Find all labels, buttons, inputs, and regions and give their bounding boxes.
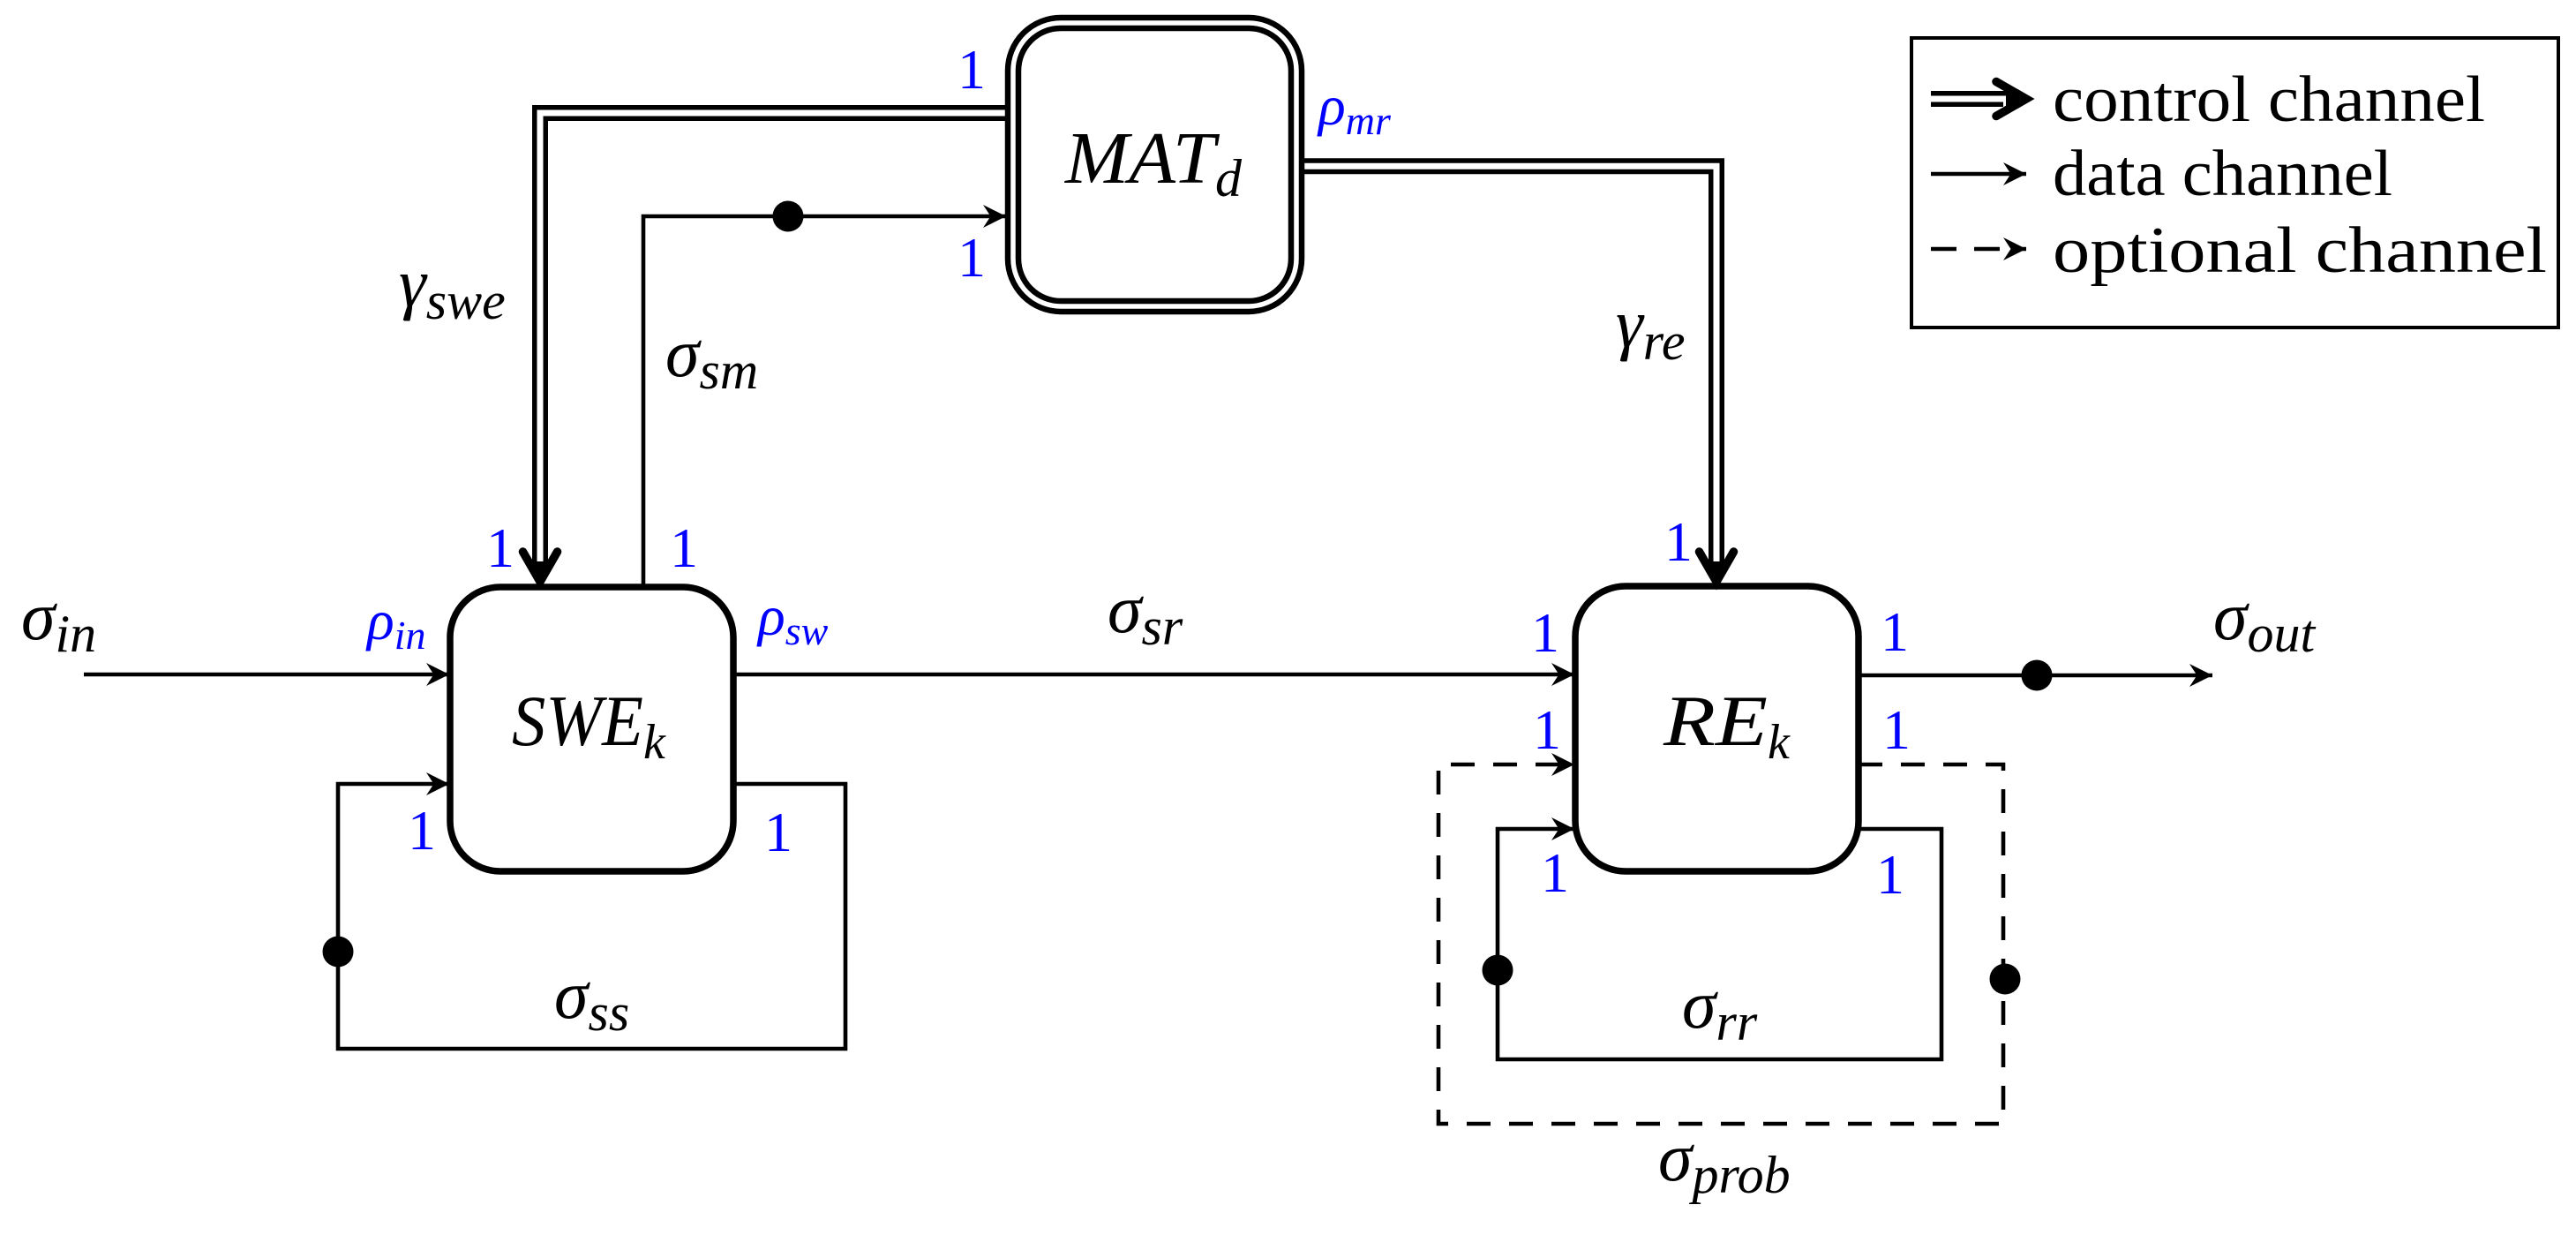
junction dot on sigma_prob: [1990, 964, 2021, 995]
label sigma_sm: [665, 314, 758, 400]
rate label 1 (SWE bottom-right): [764, 801, 792, 863]
wire sigma_rr (feedback loop of RE): [1498, 829, 1941, 1059]
svg-text:1: 1: [1876, 843, 1904, 906]
legend box: [1911, 38, 2558, 328]
wire sigma_sr (data channel SWE to RE): [733, 673, 1574, 677]
svg-text:1: 1: [1881, 600, 1909, 663]
rate label 1 (RE left data input): [1531, 601, 1559, 664]
svg-text:ρsw: ρsw: [756, 584, 829, 653]
svg-text:REk: REk: [1663, 681, 1791, 770]
label sigma_sr: [1108, 570, 1183, 656]
junction dot on sigma_rr: [1483, 955, 1513, 986]
label rho_sw: [756, 584, 829, 653]
svg-text:γswe: γswe: [399, 245, 506, 330]
label sigma_rr: [1682, 966, 1758, 1051]
svg-text:σin: σin: [21, 577, 96, 663]
svg-text:1: 1: [408, 799, 436, 862]
svg-text:σprob: σprob: [1658, 1118, 1791, 1204]
legend text control channel: [2053, 64, 2485, 136]
legend data channel sample (arrow): [1931, 172, 2026, 177]
node RE_k (rounded box): [1575, 586, 1859, 871]
label rho_mr: [1317, 74, 1392, 143]
legend text data channel: [2053, 138, 2392, 210]
svg-text:optional channel: optional channel: [2053, 215, 2547, 287]
svg-text:1: 1: [1664, 510, 1693, 573]
rate label 1 (SWE top control input): [486, 516, 514, 579]
rate label 1 (RE right optional output): [1882, 698, 1911, 761]
svg-text:data channel: data channel: [2053, 138, 2392, 210]
svg-text:σrr: σrr: [1682, 966, 1758, 1051]
svg-text:1: 1: [958, 226, 986, 289]
svg-text:1: 1: [1531, 601, 1559, 664]
wire sigma_ss (feedback loop of SWE): [338, 784, 845, 1049]
svg-text:σsm: σsm: [665, 314, 758, 400]
junction dot on sigma_ss: [323, 937, 354, 968]
svg-text:SWEk: SWEk: [512, 681, 666, 770]
svg-text:σsr: σsr: [1108, 570, 1183, 656]
wire sigma_prob (optional dashed loop of RE): [1438, 764, 2003, 1124]
rate label 1 (RE bottom-left): [1541, 841, 1569, 904]
svg-text:ρin: ρin: [365, 589, 426, 658]
legend text optional channel: [2053, 215, 2547, 287]
svg-text:1: 1: [958, 38, 986, 101]
wire sigma_out (data channel out of RE): [1859, 674, 2212, 678]
node SWE_k (rounded box): [450, 587, 733, 871]
rate label 1 (RE top control input): [1664, 510, 1693, 573]
wire sigma_sm (data channel SWE to MAT): [643, 216, 1006, 587]
svg-text:1: 1: [1533, 698, 1561, 761]
rate label 1 (RE right data output): [1881, 600, 1909, 663]
rate label 1 (SWE top data output): [670, 516, 698, 579]
svg-text:1: 1: [486, 516, 514, 579]
wire rho_mr / gamma_re (control channel MAT to RE, double line): [1303, 161, 1734, 582]
label sigma_ss: [554, 956, 629, 1042]
svg-text:MATd: MATd: [1064, 117, 1243, 207]
rate label 1 (MAT left data input): [958, 226, 986, 289]
svg-text:ρmr: ρmr: [1317, 74, 1392, 143]
svg-text:σss: σss: [554, 956, 629, 1042]
rate label 1 (SWE bottom-left): [408, 799, 436, 862]
label gamma_re: [1616, 285, 1686, 371]
legend control channel sample (double arrow): [1931, 82, 2026, 117]
rate label 1 (RE bottom-right): [1876, 843, 1904, 906]
svg-text:1: 1: [1882, 698, 1911, 761]
svg-text:σout: σout: [2213, 577, 2316, 663]
wire gamma_swe (control channel MAT to SWE, double line): [523, 108, 1008, 582]
label rho_in: [365, 589, 426, 658]
legend optional channel sample (dashed arrow): [1931, 247, 2026, 252]
svg-text:1: 1: [670, 516, 698, 579]
node MAT_d (double rounded box): [1008, 18, 1302, 312]
wire sigma_in (data channel into SWE): [84, 673, 449, 677]
svg-text:1: 1: [764, 801, 792, 863]
svg-text:control channel: control channel: [2053, 64, 2485, 136]
svg-text:γre: γre: [1616, 285, 1686, 371]
label gamma_swe: [399, 245, 506, 330]
junction dot on sigma_out: [2022, 660, 2053, 691]
label sigma_prob: [1658, 1118, 1791, 1204]
svg-text:1: 1: [1541, 841, 1569, 904]
rate label 1 (RE left optional input): [1533, 698, 1561, 761]
label sigma_in: [21, 577, 96, 663]
label sigma_out: [2213, 577, 2316, 663]
junction dot on sigma_sm: [773, 201, 804, 232]
rate label 1 (MAT left control input): [958, 38, 986, 101]
